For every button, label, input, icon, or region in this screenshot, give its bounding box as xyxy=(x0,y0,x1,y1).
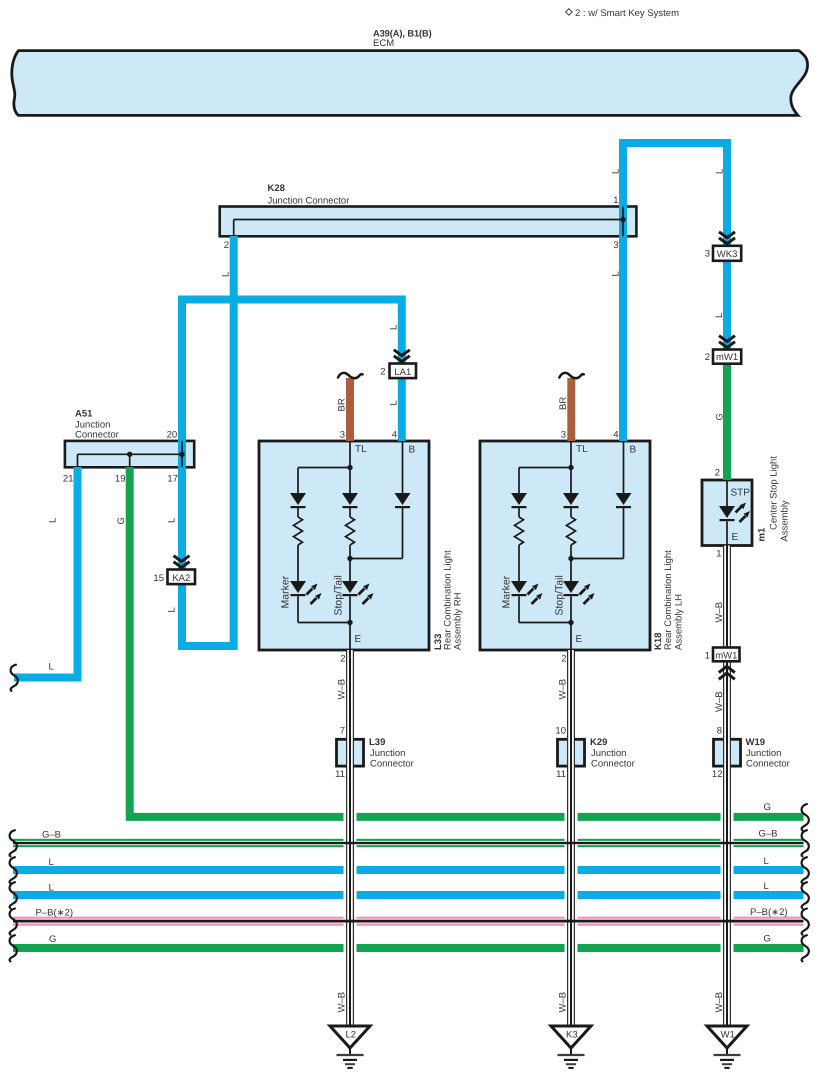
svg-text:B: B xyxy=(409,445,416,456)
wire W-B column 1 (L33 E to ground) xyxy=(344,650,357,1025)
svg-text:TL: TL xyxy=(576,444,588,455)
junction connector K29 box xyxy=(558,739,585,766)
svg-text:m1: m1 xyxy=(757,527,768,541)
pigtail on wire L left xyxy=(11,665,18,691)
bus wire G-B (green band) xyxy=(13,839,804,847)
svg-text:W–B: W–B xyxy=(714,992,725,1013)
connector mW1 lower box xyxy=(713,648,740,662)
svg-text:3: 3 xyxy=(561,430,566,441)
svg-text:LA1: LA1 xyxy=(394,367,411,378)
K18 internal circuit lines xyxy=(519,441,624,650)
bus wire L lower xyxy=(13,891,804,899)
svg-text:2: 2 xyxy=(715,468,720,479)
svg-text:2: 2 xyxy=(561,654,566,665)
svg-text:L: L xyxy=(49,883,54,894)
connector LA1 chevron xyxy=(394,350,410,362)
svg-text:Assembly RH: Assembly RH xyxy=(453,592,464,650)
wire L from K28 pin 2 down and elbow left xyxy=(182,236,234,646)
K28 junction dot xyxy=(620,217,625,222)
svg-text:KA2: KA2 xyxy=(172,573,190,584)
svg-text:20: 20 xyxy=(167,430,178,441)
svg-text:Marker: Marker xyxy=(280,575,292,608)
svg-text:11: 11 xyxy=(556,769,566,780)
STP internal line xyxy=(726,480,728,546)
svg-text:STP: STP xyxy=(731,488,751,499)
svg-text:Connector: Connector xyxy=(370,759,414,770)
svg-text:G: G xyxy=(49,934,56,945)
svg-text:L: L xyxy=(167,518,178,523)
connector WK3 chevron xyxy=(719,232,735,244)
center stop light STP box xyxy=(702,480,752,546)
svg-text:L: L xyxy=(49,662,54,673)
svg-text:L: L xyxy=(48,518,59,523)
svg-text:P–B(∗2): P–B(∗2) xyxy=(750,907,788,918)
K18 diode marker xyxy=(511,493,527,508)
bus wire P-B (pink band) xyxy=(13,917,804,926)
L33 LED marker xyxy=(290,581,322,604)
svg-text:2: 2 xyxy=(224,240,229,251)
svg-text:7: 7 xyxy=(340,726,345,737)
svg-text:W–B: W–B xyxy=(558,679,569,700)
L33 diode B xyxy=(395,493,411,508)
svg-text:L: L xyxy=(764,856,769,867)
svg-text:2: 2 xyxy=(340,654,345,665)
svg-text:W19: W19 xyxy=(746,737,766,748)
svg-text:2: 2 xyxy=(705,352,710,363)
svg-text:G: G xyxy=(764,934,771,945)
svg-text:1: 1 xyxy=(716,549,721,560)
svg-text:17: 17 xyxy=(167,474,178,485)
svg-text:K3: K3 xyxy=(566,1030,578,1041)
rotated lamp function labels xyxy=(280,575,566,615)
svg-text:Junction: Junction xyxy=(591,748,626,759)
svg-text:E: E xyxy=(355,634,362,645)
svg-text:Marker: Marker xyxy=(501,575,513,608)
P-B bus black stripe xyxy=(13,920,804,923)
A51 internal bus bar xyxy=(78,441,183,467)
connector mW1 lower chevron (points up) xyxy=(719,666,735,679)
svg-text:W1: W1 xyxy=(721,1030,735,1041)
svg-text:15: 15 xyxy=(153,573,164,584)
junction connector W19 box xyxy=(714,739,741,766)
svg-text:2: 2 xyxy=(380,367,385,378)
svg-text:L2: L2 xyxy=(346,1030,357,1041)
wire L from A51 pin 21 to pigtail xyxy=(14,467,78,678)
svg-text:TL: TL xyxy=(355,444,367,455)
wire L from ECM area: top horizontal + drop to K28 pin 1 / K18 pin 4 xyxy=(619,139,731,147)
connector mW1 upper box xyxy=(713,350,741,364)
K28 internal bus bar xyxy=(234,207,623,237)
wire W-B column 3 (STP E to ground) xyxy=(721,546,734,1026)
svg-text:L: L xyxy=(611,169,622,174)
K18 diode stop/tail xyxy=(563,493,579,508)
svg-text:Junction Connector: Junction Connector xyxy=(268,196,350,207)
svg-text:L: L xyxy=(389,325,400,330)
svg-text:B: B xyxy=(630,445,637,456)
rear combination light L33 box xyxy=(259,441,429,650)
K18 LED stop/tail xyxy=(563,581,595,604)
wire break squiggles right xyxy=(802,804,809,830)
wire L horizontal mid + drop to LA1 and A51 pin 20 xyxy=(178,296,402,442)
pigtail tilde BR L33 xyxy=(338,373,363,378)
svg-text:4: 4 xyxy=(613,430,618,441)
svg-text:Assembly LH: Assembly LH xyxy=(674,594,685,650)
L33 internal circuit lines xyxy=(298,441,403,650)
svg-text:11: 11 xyxy=(335,769,345,780)
svg-text:2 : w/ Smart Key System: 2 : w/ Smart Key System xyxy=(575,8,679,19)
svg-text:L39: L39 xyxy=(369,737,385,748)
m1 component name (rotated) xyxy=(757,456,791,542)
svg-text:BR: BR xyxy=(337,398,348,411)
bus wire G bottom xyxy=(13,944,804,952)
K18 LED marker xyxy=(511,581,543,604)
bus wire G (from A51 pin 19, elbow to right edge) xyxy=(130,467,804,817)
svg-text:12: 12 xyxy=(712,769,723,780)
svg-text:1: 1 xyxy=(705,650,710,661)
svg-text:10: 10 xyxy=(555,726,566,737)
connector KA2 chevron xyxy=(174,556,190,568)
L33 resistor (marker) xyxy=(294,517,303,545)
svg-text:WK3: WK3 xyxy=(717,249,738,260)
wire W-B column 2 (K18 E to ground) xyxy=(565,650,578,1025)
svg-text:W–B: W–B xyxy=(337,992,348,1013)
svg-text:Junction: Junction xyxy=(746,748,781,759)
svg-text:Stop/Tail: Stop/Tail xyxy=(554,575,566,615)
wire BR to K18 pin 3 xyxy=(567,378,575,441)
svg-text:3: 3 xyxy=(613,240,618,251)
K18 resistor (stop/tail) xyxy=(567,517,576,545)
L33 diode marker xyxy=(290,493,306,508)
L33 diode stop/tail xyxy=(342,493,358,508)
rear combination light K18 box xyxy=(480,441,650,650)
note: w/ Smart Key System xyxy=(566,8,679,19)
svg-text:K28: K28 xyxy=(268,183,285,194)
L33 junction dots xyxy=(347,465,352,470)
svg-text:Connector: Connector xyxy=(746,759,790,770)
junction connector L39 box xyxy=(337,739,364,766)
pigtail tilde BR K18 xyxy=(559,373,584,378)
A51 junction dots xyxy=(127,452,132,457)
L33 resistor (stop/tail) xyxy=(346,517,355,545)
wire L right column to WK3/mW1 xyxy=(723,139,731,350)
svg-text:Connector: Connector xyxy=(591,759,635,770)
K18 component name (rotated) xyxy=(653,550,685,650)
junction connector A51 box xyxy=(65,441,194,467)
svg-text:L: L xyxy=(389,400,400,405)
svg-text:4: 4 xyxy=(392,430,397,441)
svg-text:L: L xyxy=(764,881,769,892)
svg-text:P–B(∗2): P–B(∗2) xyxy=(36,908,74,919)
svg-text:G–B: G–B xyxy=(42,830,61,841)
svg-text:BR: BR xyxy=(558,397,569,410)
svg-text:Assembly: Assembly xyxy=(780,500,791,541)
svg-text:Junction: Junction xyxy=(370,748,405,759)
svg-text:L: L xyxy=(49,857,54,868)
svg-text:mW1: mW1 xyxy=(715,650,737,661)
svg-text:G: G xyxy=(715,413,726,420)
svg-text:19: 19 xyxy=(115,474,126,485)
L33 component name (rotated) xyxy=(433,550,464,650)
svg-text:A51: A51 xyxy=(75,409,93,420)
K18 junction dots xyxy=(568,465,573,470)
svg-text:8: 8 xyxy=(717,726,722,737)
ground K3 xyxy=(551,1026,591,1068)
svg-text:1: 1 xyxy=(613,195,618,206)
K18 diode B xyxy=(616,493,632,508)
wire G from mW1 to STP xyxy=(723,364,731,481)
L33 LED stop/tail xyxy=(342,581,374,604)
svg-text:W–B: W–B xyxy=(714,691,725,712)
svg-text:A39(A), B1(B): A39(A), B1(B) xyxy=(373,29,432,39)
svg-text:W–B: W–B xyxy=(337,679,348,700)
svg-text:L: L xyxy=(715,169,726,174)
wire BR to L33 pin 3 xyxy=(346,378,354,441)
svg-text:L: L xyxy=(221,272,232,277)
svg-text:E: E xyxy=(732,532,739,543)
svg-text:W–B: W–B xyxy=(714,602,725,623)
svg-text:Rear Combination Light: Rear Combination Light xyxy=(663,550,674,650)
svg-text:Center Stop Light: Center Stop Light xyxy=(769,456,780,530)
svg-text:3: 3 xyxy=(705,249,710,260)
svg-text:G: G xyxy=(116,517,127,524)
svg-text:Stop/Tail: Stop/Tail xyxy=(333,575,345,615)
svg-text:L: L xyxy=(167,607,178,612)
wire break squiggles left xyxy=(10,830,17,856)
svg-text:3: 3 xyxy=(340,430,345,441)
svg-text:W–B: W–B xyxy=(558,992,569,1013)
svg-text:21: 21 xyxy=(63,474,74,485)
svg-text:K29: K29 xyxy=(590,737,607,748)
ground L2 xyxy=(330,1026,370,1068)
svg-text:L: L xyxy=(610,271,621,276)
svg-text:Connector: Connector xyxy=(75,430,119,441)
K18 resistor (marker) xyxy=(515,517,524,545)
svg-text:G: G xyxy=(764,802,771,813)
G-B bus black stripe xyxy=(13,842,804,844)
svg-text:ECM: ECM xyxy=(373,38,394,49)
ground W1 xyxy=(707,1026,747,1068)
junction connector K28 box xyxy=(220,207,637,237)
connector mW1 upper chevron xyxy=(719,336,735,348)
STP LED xyxy=(719,503,750,523)
connector KA2 box xyxy=(168,570,196,585)
connector LA1 box xyxy=(390,364,417,379)
connector WK3 box xyxy=(713,246,741,261)
svg-text:E: E xyxy=(576,634,583,645)
svg-text:G–B: G–B xyxy=(759,829,778,840)
ECM block A39(A) B1(B) xyxy=(12,51,808,116)
svg-text:L: L xyxy=(714,313,725,318)
svg-text:mW1: mW1 xyxy=(716,352,738,363)
bus wire L upper xyxy=(13,866,804,874)
